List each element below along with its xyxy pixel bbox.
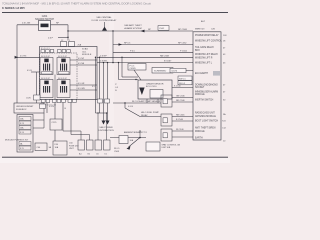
svg-text:FUSE DIO: FUSE DIO	[69, 145, 79, 147]
sensor box 2	[161, 114, 172, 126]
down triangles	[102, 121, 106, 125]
diagonal wire to pump relay	[125, 108, 140, 117]
svg-text:SCREENED: SCREENED	[154, 71, 167, 73]
svg-text:SOCKET: SOCKET	[195, 87, 205, 89]
under bonnet fusebox header	[14, 103, 44, 113]
up triangle	[102, 27, 107, 31]
svg-text:P 0.5: P 0.5	[130, 65, 136, 67]
svg-text:B C567: B C567	[164, 61, 172, 63]
svg-text:86 30 85 87: 86 30 85 87	[41, 78, 50, 80]
svg-text:ANTI THEFT SIREN: ANTI THEFT SIREN	[195, 126, 216, 129]
relay output wires inside module	[70, 59, 97, 61]
svg-text:NP 0.5: NP 0.5	[124, 43, 131, 45]
svg-text:MODULE: MODULE	[195, 131, 205, 133]
svg-text:P C562: P C562	[180, 50, 188, 52]
svg-text:0.5 P: 0.5 P	[48, 37, 54, 39]
connector above fusebox	[34, 95, 41, 100]
svg-text:CRASH SENSOR: CRASH SENSOR	[146, 82, 164, 85]
svg-text:WINDOW LIFT R: WINDOW LIFT R	[195, 57, 213, 59]
svg-text:DOWNLOAD/DIAGNO: DOWNLOAD/DIAGNO	[195, 83, 218, 86]
svg-text:W 0.5: W 0.5	[114, 148, 120, 150]
bottom left boxes	[35, 143, 47, 151]
svg-text:BOOT LIGHT SWITCH: BOOT LIGHT SWITCH	[195, 120, 218, 122]
svg-text:GB C546: GB C546	[176, 96, 185, 98]
svg-text:SB 0.5: SB 0.5	[179, 83, 186, 85]
grid refs right of box	[222, 35, 227, 143]
module bottom pin row	[42, 100, 77, 103]
bus wire y31 to list box	[68, 30, 193, 32]
svg-text:P 0.5: P 0.5	[130, 50, 136, 52]
CDL module U1	[40, 47, 98, 100]
svg-text:IN COOLANT TEMP SENSOR: IN COOLANT TEMP SENSOR	[132, 100, 161, 103]
gray ref tag	[213, 71, 220, 76]
svg-text:0.5 B: 0.5 B	[49, 106, 54, 108]
bottom rule	[2, 156, 228, 158]
svg-text:UNIT 30B: UNIT 30B	[162, 147, 171, 149]
verticals mid	[95, 57, 97, 113]
wires module bottom to fuse area	[46, 103, 48, 114]
wire right of switch	[51, 24, 69, 26]
screened tag wire to list box	[170, 68, 186, 72]
svg-text:0.5 RG: 0.5 RG	[20, 55, 27, 57]
svg-text:SW 0.5: SW 0.5	[179, 78, 186, 80]
svg-text:ECU EARTH: ECU EARTH	[195, 72, 208, 75]
svg-text:BOX: BOX	[195, 50, 200, 52]
screened label box	[152, 68, 173, 74]
sensor box 3	[161, 129, 172, 141]
svg-text:NR C546: NR C546	[176, 100, 185, 102]
svg-text:0.5 NP: 0.5 NP	[100, 55, 107, 57]
svg-text:NP C568: NP C568	[178, 29, 188, 31]
svg-text:NP C562: NP C562	[178, 43, 187, 45]
svg-text:7CWL04A4 M 1 84 MY94 MGF - M: 7CWL04A4 M 1 84 MY94 MGF - MG 1.8i EFI 0…	[2, 2, 151, 6]
stub from sensor3 wire down to junction	[139, 131, 141, 138]
title rule	[2, 12, 228, 14]
svg-text:C204: C204	[42, 16, 48, 18]
svg-text:0.5 NP: 0.5 NP	[78, 58, 85, 60]
svg-text:UNDER BONNET: UNDER BONNET	[16, 106, 34, 108]
relay K1	[40, 58, 53, 75]
paper background	[0, 0, 230, 163]
svg-text:DOOR LOCKING RELAY: DOOR LOCKING RELAY	[92, 19, 117, 22]
svg-text:0.5 LGN: 0.5 LGN	[22, 23, 31, 25]
svg-text:HI/LO FUEL PUMP: HI/LO FUEL PUMP	[141, 112, 159, 114]
relay K3	[40, 80, 53, 98]
svg-text:30 AS: 30 AS	[82, 48, 88, 51]
svg-text:ANTENNA MODULE: ANTENNA MODULE	[195, 115, 216, 118]
svg-text:C562: C562	[159, 28, 165, 30]
bottom connector pins row	[78, 140, 110, 150]
svg-text:K SERIES 1.8 MPI: K SERIES 1.8 MPI	[2, 6, 25, 10]
svg-text:0.5 WB: 0.5 WB	[78, 88, 85, 90]
stub to triangle	[104, 22, 106, 27]
bottom mid wire	[110, 137, 146, 139]
svg-text:W C546: W C546	[176, 129, 184, 131]
short wire y37	[58, 36, 68, 38]
svg-text:SEE ANTI THEFT: SEE ANTI THEFT	[124, 24, 142, 27]
svg-text:ALARM SYSTEM: ALARM SYSTEM	[124, 27, 141, 30]
left arrowhead on bus	[141, 30, 145, 33]
wire jog from module pin to connector A	[63, 130, 81, 132]
svg-text:FUSEBOX: FUSEBOX	[16, 109, 27, 111]
svg-text:86 30 85 87: 86 30 85 87	[41, 56, 50, 58]
verticals to bottom connectors	[97, 113, 99, 140]
svg-text:ECU C510: ECU C510	[146, 86, 157, 88]
wire y62	[97, 62, 193, 64]
wire jog from module pin to connector B	[71, 134, 90, 136]
svg-text:RADIO/CASS UNIT: RADIO/CASS UNIT	[195, 111, 215, 114]
svg-text:F 23: F 23	[20, 123, 24, 125]
left arrow junction	[15, 56, 18, 59]
hazard switch S1	[39, 21, 51, 31]
connector label box on bus	[158, 26, 169, 31]
down triangle in crash ecu	[139, 88, 144, 96]
spat control unit box	[146, 142, 160, 151]
svg-text:WINDOW LIFT L: WINDOW LIFT L	[195, 63, 213, 65]
wire left of switch	[17, 24, 39, 26]
svg-text:UNIT: UNIT	[69, 148, 74, 150]
svg-text:C/B: C/B	[211, 28, 215, 30]
svg-text:CDL: CDL	[82, 51, 87, 53]
svg-text:WINDOW LIFT CONTROL: WINDOW LIFT CONTROL	[195, 41, 222, 43]
svg-text:DISTRIBUTION: DISTRIBUTION	[98, 130, 114, 132]
relay K2	[57, 58, 70, 75]
svg-text:0.5 B: 0.5 B	[128, 106, 133, 108]
svg-text:C508: C508	[114, 151, 120, 153]
wire between relays	[54, 75, 56, 100]
crash ecu bottom stubs	[146, 99, 148, 103]
svg-text:INERTIA SWITCH: INERTIA SWITCH	[195, 99, 214, 102]
sensor box 1	[161, 95, 172, 107]
svg-text:C125: C125	[52, 122, 58, 124]
svg-text:AMBIENT/EXHAUST TO: AMBIENT/EXHAUST TO	[124, 131, 147, 134]
svg-text:C0576: C0576	[171, 71, 178, 73]
svg-text:B C546: B C546	[176, 119, 184, 121]
mid small connector box	[50, 119, 62, 130]
svg-text:IMMOBILISER ALARM: IMMOBILISER ALARM	[195, 90, 218, 93]
svg-text:8 5 2 6 1 3: 8 5 2 6 1 3	[41, 48, 50, 50]
svg-text:0.5 GR: 0.5 GR	[78, 83, 85, 85]
fusebox tall box	[17, 115, 33, 153]
relay K4	[57, 80, 70, 98]
junction bar y113	[96, 112, 108, 114]
svg-text:WINDOW LIFT RELAY: WINDOW LIFT RELAY	[195, 53, 218, 56]
svg-text:MODULE FUSEBOX KIT: MODULE FUSEBOX KIT	[5, 140, 29, 142]
crash sensor ECU	[138, 80, 172, 99]
svg-text:86 30 85 87: 86 30 85 87	[58, 56, 67, 58]
wire corner down at x68	[67, 25, 69, 41]
svg-text:SPAT CONTROL UN: SPAT CONTROL UN	[162, 143, 181, 146]
stubs from fusebox	[33, 119, 44, 121]
inline connectors on verticals	[98, 99, 103, 103]
left bus vertical wire	[16, 25, 18, 103]
svg-text:NB C546: NB C546	[176, 115, 185, 117]
stacked tag boxes	[178, 76, 192, 80]
svg-text:C0585: C0585	[130, 68, 137, 70]
wire y87	[172, 87, 193, 89]
module connector boxes above	[61, 42, 67, 47]
svg-text:MODULE: MODULE	[195, 94, 205, 96]
svg-text:0.5 NB: 0.5 NB	[78, 63, 85, 65]
svg-text:TAIL GATE RELAY: TAIL GATE RELAY	[195, 46, 214, 49]
wire y80 into crash ecu	[118, 63, 120, 80]
wire into module y57	[17, 56, 40, 58]
svg-text:86 30 85 87: 86 30 85 87	[58, 78, 67, 80]
svg-text:POWER WASH RELAY: POWER WASH RELAY	[195, 34, 219, 37]
svg-text:0.5: 0.5	[92, 86, 95, 88]
svg-text:EARTH: EARTH	[195, 137, 203, 140]
svg-text:WIRE ID#: WIRE ID#	[195, 28, 206, 30]
wire y44 to list box	[113, 44, 193, 46]
svg-text:0.5 B: 0.5 B	[27, 70, 32, 72]
svg-text:MODULE: MODULE	[82, 54, 92, 56]
module top pin row	[41, 50, 70, 53]
wire into crash ecu	[134, 70, 141, 80]
svg-text:K C510: K C510	[174, 86, 182, 88]
wire into module y72	[31, 71, 40, 73]
mid wires to sensors	[113, 102, 161, 104]
connector C0585 box	[128, 64, 146, 71]
svg-text:SEE POWER: SEE POWER	[99, 127, 113, 129]
wire y57	[97, 56, 193, 58]
svg-text:SEE CENTRAL: SEE CENTRAL	[96, 16, 112, 19]
relay assembly dashed enclosure	[40, 53, 78, 100]
vertical from bus x113	[112, 31, 114, 63]
destination list box	[193, 32, 221, 140]
svg-text:F 25: F 25	[20, 148, 24, 150]
svg-text:F 24: F 24	[20, 132, 24, 134]
svg-text:NB C568: NB C568	[160, 55, 170, 57]
second wire into crash ecu	[121, 57, 123, 77]
wire y52 to list box	[113, 51, 193, 53]
